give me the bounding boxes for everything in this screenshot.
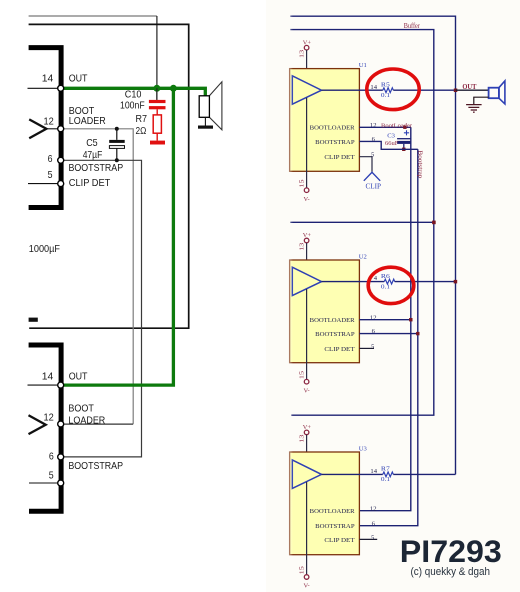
wire vertical from top gray line down to node A / C10 (156, 16, 158, 100)
op-amp U3 triangle (292, 460, 321, 488)
node dot U2 pin6 (416, 332, 419, 335)
capacitor C5 stems and junction dots (116, 129, 118, 161)
svg-text:R6: R6 (381, 273, 391, 280)
resistor R7 zigzag (383, 472, 394, 477)
svg-text:BOOTSTRAP: BOOTSTRAP (315, 331, 355, 338)
capacitor C3 plus sign (404, 130, 409, 135)
svg-text:6: 6 (49, 451, 54, 463)
wire pin14 net of U3 (322, 473, 383, 475)
svg-text:U3: U3 (359, 445, 368, 452)
wire Bootstrap rail v2 down to U3 pin6 (359, 149, 417, 525)
wire V- stem inside U3 (306, 482, 308, 575)
ground symbol (474, 97, 489, 104)
svg-text:0.1: 0.1 (381, 476, 390, 483)
chevron input pin12 (bottom IC) (29, 415, 46, 434)
svg-text:100nF: 100nF (120, 99, 145, 111)
power V- symbol (U3) (304, 575, 309, 580)
svg-text:BOOT: BOOT (68, 403, 94, 415)
svg-text:15: 15 (298, 179, 305, 187)
power V- symbol (U2) (304, 379, 309, 384)
svg-text:BOOTLOADER: BOOTLOADER (310, 125, 356, 132)
svg-text:OUT: OUT (69, 371, 88, 383)
red highlight ellipse around R6 (368, 267, 414, 303)
wire V- stem inside U1 (306, 98, 308, 188)
svg-text:CLIP DET: CLIP DET (324, 154, 354, 161)
svg-text:CLIP DET: CLIP DET (324, 346, 354, 353)
wire green OUT net vertical drop and bottom run (64, 88, 174, 385)
wire BootLoader rail v1 down to U3 pin12 (359, 127, 410, 510)
svg-text:(c) quekky & dgah: (c) quekky & dgah (411, 566, 491, 578)
svg-text:BOOTSTRAP: BOOTSTRAP (69, 162, 124, 174)
capacitor C5 plates (109, 140, 125, 143)
capacitor C3 plates (397, 138, 411, 140)
node B green junction (170, 85, 177, 92)
svg-text:R5: R5 (381, 82, 391, 89)
svg-text:BootLoader: BootLoader (381, 123, 412, 130)
wire Buffer bus outer rail: top line, right rail down to U3 pin14 (290, 16, 455, 474)
svg-text:CLIP DET: CLIP DET (69, 177, 111, 189)
capacitor C10 stem (156, 88, 158, 100)
pin circles top IC (58, 85, 64, 91)
resistor R6 zigzag (384, 279, 395, 284)
wire pin6 net U2 (359, 333, 417, 335)
svg-text:5: 5 (49, 470, 54, 482)
svg-text:Buffer: Buffer (404, 21, 421, 30)
svg-text:13: 13 (299, 243, 306, 251)
wire top gray net line (29, 15, 157, 17)
node dot U2 pin12 (409, 318, 412, 321)
svg-text:OUT: OUT (462, 83, 476, 91)
op-amp U2 triangle (292, 267, 321, 295)
svg-text:2Ω: 2Ω (136, 125, 147, 137)
op-amp U1 triangle (292, 76, 321, 104)
wire top black net: right, down, back left (29, 24, 189, 328)
wire pin14 net of U2 (322, 281, 385, 283)
wire separator net line (below U1) (290, 221, 434, 223)
svg-text:14: 14 (42, 72, 54, 84)
svg-text:LOADER: LOADER (69, 115, 106, 127)
svg-text:13: 13 (299, 50, 306, 58)
svg-text:14: 14 (370, 84, 377, 91)
svg-text:R7: R7 (136, 113, 148, 125)
svg-text:BOOTSTRAP: BOOTSTRAP (315, 523, 355, 530)
wire C3 bottom to bootstrap net (403, 144, 405, 149)
svg-text:13: 13 (299, 435, 306, 443)
svg-text:V-: V- (304, 196, 310, 203)
op-amp U2 (left zoomed IC outline, bottom) (29, 345, 62, 511)
wire V- stem inside U2 (306, 289, 308, 379)
wire stub (clipped lead) left middle (29, 318, 38, 322)
capacitor C10 (red plates) (149, 100, 166, 103)
wire pin12 net U1 to C3 (359, 126, 410, 128)
svg-text:BOOTLOADER: BOOTLOADER (310, 508, 356, 515)
speaker (right panel) (499, 81, 505, 104)
svg-text:LOADER: LOADER (68, 415, 105, 427)
op-amp U1 body (yellow block) (290, 69, 360, 172)
svg-text:0.1: 0.1 (381, 283, 390, 290)
wire pin5 to CLIP symbol (359, 157, 372, 173)
wire OUT to speaker (456, 89, 489, 91)
resistor R7 (red) with leads (156, 109, 158, 140)
svg-text:U1: U1 (359, 62, 367, 69)
svg-text:BOOTSTRAP: BOOTSTRAP (315, 139, 355, 146)
chevron input pin12 (top IC) (29, 119, 46, 138)
wire pin5 stub U2 (359, 347, 374, 349)
wire pin14 lead (bottom IC) (28, 384, 59, 386)
svg-text:CLIP DET: CLIP DET (324, 537, 354, 544)
wire pin5 lead (bottom IC) (29, 482, 58, 484)
red terminal bar below R7 (150, 141, 165, 145)
wire V+ stem into U3 (306, 435, 308, 468)
svg-text:12: 12 (44, 412, 54, 424)
node junction on inner rail (432, 221, 436, 225)
power V- symbol (U1) (304, 188, 309, 193)
svg-text:12: 12 (44, 116, 54, 128)
background right scanned panel (266, 0, 520, 592)
svg-text:14: 14 (42, 371, 54, 383)
svg-text:V-: V- (304, 387, 310, 394)
svg-text:5: 5 (48, 169, 53, 181)
svg-text:R7: R7 (381, 466, 391, 473)
wire V+ stem into U1 (306, 50, 308, 83)
svg-text:47µF: 47µF (83, 149, 103, 161)
wire pin5 stub U3 (359, 538, 377, 540)
node dot U2 pin14 on outer rail (454, 280, 458, 284)
svg-text:PI7293: PI7293 (400, 533, 502, 569)
svg-text:V-: V- (304, 583, 310, 590)
wire green OUT net (top): pin14 to speaker (64, 88, 206, 96)
svg-text:U2: U2 (359, 253, 367, 260)
pin circles bottom IC (58, 382, 64, 388)
svg-text:OUT: OUT (69, 72, 88, 84)
wire pin14 net of U1 (322, 89, 383, 91)
svg-text:66uF: 66uF (385, 140, 399, 147)
wire V+ stem into U2 (306, 243, 308, 275)
red highlight ellipse around R5 (367, 69, 419, 110)
svg-text:15: 15 (298, 371, 305, 379)
CLIP symbol triangle (364, 172, 380, 181)
svg-text:14: 14 (370, 468, 377, 475)
svg-text:C5: C5 (86, 137, 98, 149)
svg-text:12: 12 (370, 505, 377, 512)
fade of scanned page left edge over yellow blocks (283, 0, 293, 592)
op-amp U3 body (yellow block) (290, 452, 360, 555)
op-amp U2 body (yellow block) (290, 260, 360, 363)
op-amp U1 (left zoomed IC outline, top) (29, 48, 62, 208)
wire pin12 net U2 (359, 319, 410, 321)
svg-text:0.1: 0.1 (381, 92, 390, 99)
svg-text:BOOTSTRAP: BOOTSTRAP (68, 460, 123, 472)
junction dot OUT node (454, 89, 458, 93)
wire BOOT LOADER net: pin12 right then down to bottom IC pin12 (63, 129, 133, 424)
node dot on pin12 wire (403, 126, 406, 129)
node A green junction (153, 85, 160, 92)
wire pin5 lead (top IC) (28, 183, 58, 185)
svg-text:BOOTLOADER: BOOTLOADER (310, 317, 356, 324)
resistor R5 zigzag (383, 88, 394, 93)
svg-text:Bootstrap: Bootstrap (417, 150, 424, 179)
svg-text:C3: C3 (387, 133, 395, 140)
wire inner rail: top line down to lower separator (290, 30, 434, 416)
speaker LS1 (left panel) (209, 82, 222, 130)
svg-text:CLIP: CLIP (366, 183, 382, 190)
svg-text:6: 6 (48, 153, 53, 165)
wire pin14 lead (top IC) (28, 87, 59, 89)
wire pin12 lead from chevron (top IC) (46, 128, 59, 130)
node dot under C3 (402, 148, 405, 151)
wire pin6 net U1 to bootstrap rail (359, 141, 417, 149)
svg-text:15: 15 (298, 566, 305, 574)
speaker ground stem and bar (204, 117, 206, 125)
wire BOOTSTRAP net: pin6 right then down to bottom IC pin6 (63, 160, 142, 457)
svg-text:1000µF: 1000µF (29, 243, 60, 255)
